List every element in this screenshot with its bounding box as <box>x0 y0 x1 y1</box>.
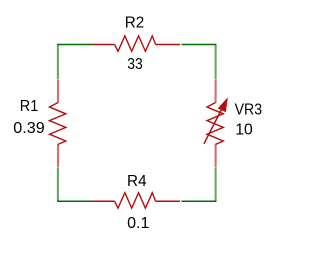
svg-text:33: 33 <box>127 56 143 73</box>
wire bottom-right horizontal segment <box>182 200 217 202</box>
wire right upper vertical segment <box>215 44 217 80</box>
VR3 wiper arrowhead <box>219 98 228 111</box>
svg-text:0.1: 0.1 <box>127 215 149 232</box>
svg-text:R1: R1 <box>20 98 39 115</box>
wire top-left horizontal segment <box>57 44 93 46</box>
wire left upper vertical segment <box>57 44 59 80</box>
resistor R2 <box>93 36 180 51</box>
resistor R1 <box>50 80 66 167</box>
wire right lower vertical segment <box>215 167 217 202</box>
svg-text:R2: R2 <box>125 14 145 31</box>
VR3 wiper arrow shaft <box>204 110 222 144</box>
svg-text:R4: R4 <box>127 173 147 190</box>
svg-text:0.39: 0.39 <box>13 120 45 137</box>
wire left lower vertical segment <box>57 167 59 202</box>
variable resistor VR3 <box>204 80 227 167</box>
resistor R4 <box>93 193 180 208</box>
svg-text:10: 10 <box>235 121 253 138</box>
svg-text:VR3: VR3 <box>235 102 263 119</box>
wire top-right horizontal segment <box>182 44 217 46</box>
wire bottom-left horizontal segment <box>57 200 93 202</box>
